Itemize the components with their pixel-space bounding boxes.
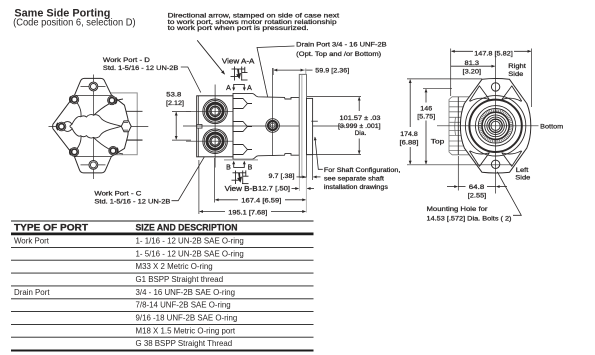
svg-text:Side: Side	[515, 175, 530, 182]
front view hex plug	[121, 121, 131, 132]
svg-text:195.1 [7.68]: 195.1 [7.68]	[228, 209, 267, 216]
svg-text:9/16 -18 UNF-2B SAE O-ring: 9/16 -18 UNF-2B SAE O-ring	[136, 314, 238, 323]
svg-text:64.8: 64.8	[469, 184, 485, 191]
side view drain port	[266, 119, 280, 133]
dim 174.8	[400, 79, 513, 165]
rear view bolt holes	[491, 83, 499, 169]
side view case tabs	[234, 99, 253, 155]
dim 195.1	[199, 160, 306, 216]
stamped arrow glyph A	[231, 67, 248, 81]
rear view ear cutouts	[470, 86, 522, 166]
dim 64.8	[447, 156, 507, 200]
svg-text:M18 X 1.5 Metric O-ring port: M18 X 1.5 Metric O-ring port	[136, 326, 236, 335]
svg-text:TYPE OF PORT: TYPE OF PORT	[14, 223, 89, 233]
svg-text:53.8: 53.8	[166, 91, 181, 98]
leader mounting hole	[497, 172, 521, 216]
label work port D	[103, 57, 179, 72]
dim 146	[417, 88, 452, 164]
leader drain port	[257, 46, 295, 115]
svg-text:Work Port: Work Port	[14, 237, 50, 246]
rear view body silhouette	[449, 97, 480, 155]
svg-text:View A-A: View A-A	[222, 59, 255, 66]
rear view widest-face edge	[457, 97, 459, 155]
svg-text:G 38 BSPP Straight Thread: G 38 BSPP Straight Thread	[136, 339, 233, 348]
svg-text:A: A	[247, 85, 252, 92]
leader for shaft note	[315, 137, 323, 169]
table rules	[11, 221, 314, 351]
svg-text:SIZE AND DESCRIPTION: SIZE AND DESCRIPTION	[136, 223, 238, 233]
dia 101.57 dim line	[358, 97, 360, 111]
svg-text:14.53 [.572] Dia. Bolts ( 2): 14.53 [.572] Dia. Bolts ( 2)	[427, 215, 512, 222]
svg-text:see separate shaft: see separate shaft	[324, 175, 384, 182]
svg-text:12.7 [.50]: 12.7 [.50]	[258, 186, 290, 193]
svg-text:B: B	[248, 164, 253, 171]
side view mounting flange plate	[299, 74, 306, 177]
svg-text:147.8 [5.82]: 147.8 [5.82]	[474, 50, 513, 57]
svg-text:3/4 - 16 UNF-2B SAE O-ring: 3/4 - 16 UNF-2B SAE O-ring	[136, 288, 236, 297]
front view work port centerline stubs	[107, 111, 143, 140]
dia 101.57 extension lines	[307, 96, 361, 154]
dim 167.4	[215, 158, 306, 205]
svg-text:A: A	[226, 85, 231, 92]
svg-text:Bottom: Bottom	[540, 123, 563, 130]
dia 101.57 text	[338, 115, 381, 137]
side view centerlines	[183, 68, 345, 168]
svg-text:[6.88]: [6.88]	[400, 140, 419, 147]
svg-text:7/8-14 UNF-2B SAE O-ring: 7/8-14 UNF-2B SAE O-ring	[136, 301, 231, 310]
shaft block extension	[312, 155, 314, 180]
svg-text:Work Port - C: Work Port - C	[94, 191, 141, 198]
svg-text:[2.55]: [2.55]	[468, 193, 487, 200]
note for shaft configuration	[324, 167, 401, 191]
svg-text:[3.999 ± .001]: [3.999 ± .001]	[338, 123, 381, 130]
side view upper port	[203, 99, 228, 124]
section B-B cut marks	[226, 161, 253, 172]
svg-text:9.7 [.38]: 9.7 [.38]	[269, 173, 295, 180]
rear view centerlines	[437, 57, 539, 194]
dim 12.7	[258, 186, 314, 193]
front view casting curves	[75, 99, 124, 154]
svg-text:(Code position 6, selection D): (Code position 6, selection D)	[13, 18, 136, 29]
svg-text:View B-B: View B-B	[225, 186, 258, 193]
label drain port	[296, 41, 387, 58]
dimension 53.8	[166, 91, 191, 140]
svg-text:81.3: 81.3	[465, 60, 480, 67]
svg-text:B: B	[226, 164, 231, 171]
svg-text:[2.12]: [2.12]	[166, 100, 184, 107]
svg-text:174.8: 174.8	[400, 131, 418, 138]
svg-text:to work port when port is pres: to work port when port is pressurized.	[168, 25, 309, 32]
dim 59.9	[273, 67, 349, 75]
front view centerlines	[49, 75, 149, 180]
rear view concentric rings	[465, 96, 525, 156]
svg-text:For Shaft Configuration,: For Shaft Configuration,	[324, 167, 401, 174]
svg-text:Mounting Hole for: Mounting Hole for	[427, 206, 489, 213]
leader directional arrow	[197, 40, 224, 74]
rear view flange outline	[460, 79, 530, 174]
side view case body	[233, 93, 299, 159]
svg-text:(Opt. Top and /or Bottom): (Opt. Top and /or Bottom)	[296, 51, 381, 58]
leader work port C	[172, 153, 207, 201]
title	[13, 8, 136, 29]
svg-text:Right: Right	[508, 63, 526, 70]
svg-text:Top: Top	[431, 139, 445, 146]
svg-text:[5.75]: [5.75]	[417, 114, 435, 121]
dim 81.3	[451, 60, 495, 76]
side view port block	[197, 96, 233, 157]
table rows	[14, 237, 244, 349]
section A-A cut marks	[226, 84, 252, 91]
table header	[14, 223, 238, 233]
svg-text:installation drawings: installation drawings	[324, 184, 389, 191]
svg-text:59.9 [2.36]: 59.9 [2.36]	[315, 67, 349, 74]
mounting hole note	[427, 206, 512, 223]
side view lower port	[203, 129, 228, 154]
labels right side	[431, 63, 564, 182]
label work port C	[94, 191, 171, 206]
svg-text:Side: Side	[508, 71, 523, 78]
front view flange outline	[53, 78, 128, 172]
stamped arrow glyph B	[232, 170, 249, 184]
note directional arrow	[168, 13, 340, 33]
svg-text:[3.20]: [3.20]	[463, 68, 482, 75]
svg-text:Std. 1-5/16 - 12 UN-2B: Std. 1-5/16 - 12 UN-2B	[94, 199, 171, 206]
svg-text:1- 5/16 - 12 UN-2B SAE O-ring: 1- 5/16 - 12 UN-2B SAE O-ring	[136, 249, 244, 258]
svg-text:1- 1/16 - 12 UN-2B SAE O-ring: 1- 1/16 - 12 UN-2B SAE O-ring	[136, 237, 244, 246]
leader work port D	[181, 67, 201, 93]
svg-text:Std. 1-5/16 - 12 UN-2B: Std. 1-5/16 - 12 UN-2B	[103, 65, 179, 72]
flange body edges behind ears	[74, 94, 111, 96]
svg-text:Drain Port: Drain Port	[14, 288, 50, 297]
svg-text:M33 X 2 Metric O-ring: M33 X 2 Metric O-ring	[136, 262, 213, 271]
front view bolt holes	[89, 82, 98, 169]
side view shaft end block	[307, 98, 313, 154]
front view port block (hidden square)	[92, 93, 137, 155]
side view case shadow line	[224, 159, 258, 161]
svg-text:Left: Left	[516, 167, 529, 174]
side view block notch	[197, 125, 202, 129]
svg-text:146: 146	[420, 105, 432, 112]
front view center blob (casting profile)	[63, 122, 73, 132]
svg-text:167.4 [6.59]: 167.4 [6.59]	[241, 198, 281, 205]
svg-text:Drain Port 3/4 - 16 UNF-2B: Drain Port 3/4 - 16 UNF-2B	[296, 41, 387, 48]
svg-text:Work Port - D: Work Port - D	[103, 57, 150, 64]
svg-text:G1 BSPP Straight thread: G1 BSPP Straight thread	[136, 275, 224, 284]
svg-text:Dia.: Dia.	[355, 130, 367, 137]
dim 147.8	[451, 49, 532, 108]
svg-text:101.57 ± .03: 101.57 ± .03	[340, 115, 381, 122]
dim 9.7	[269, 173, 321, 180]
